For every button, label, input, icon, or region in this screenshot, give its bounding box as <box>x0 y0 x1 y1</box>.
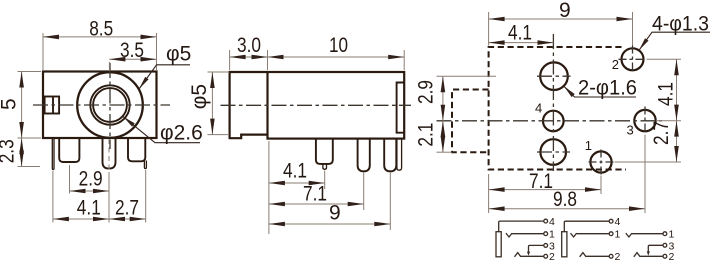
svg-text:2: 2 <box>612 57 619 72</box>
svg-text:10: 10 <box>329 34 348 57</box>
svg-text:2: 2 <box>669 251 675 260</box>
svg-text:4: 4 <box>615 216 621 228</box>
svg-text:7.1: 7.1 <box>303 182 327 205</box>
svg-text:7.1: 7.1 <box>529 170 553 193</box>
svg-text:3.5: 3.5 <box>120 39 144 62</box>
svg-text:9: 9 <box>559 0 571 22</box>
svg-text:3.0: 3.0 <box>237 34 261 57</box>
svg-text:2: 2 <box>549 251 555 260</box>
svg-text:4: 4 <box>549 216 555 228</box>
svg-text:4.1: 4.1 <box>655 82 678 106</box>
svg-text:1: 1 <box>585 138 592 153</box>
svg-text:4.1: 4.1 <box>283 159 307 182</box>
svg-text:4-φ1.3: 4-φ1.3 <box>652 12 709 35</box>
svg-text:2.7: 2.7 <box>650 121 673 145</box>
svg-text:φ5: φ5 <box>166 42 191 65</box>
svg-text:3: 3 <box>627 123 634 138</box>
svg-text:2.9: 2.9 <box>415 80 438 104</box>
svg-text:1: 1 <box>549 229 555 241</box>
svg-text:4.1: 4.1 <box>77 196 101 219</box>
svg-text:1: 1 <box>669 229 675 241</box>
svg-text:9: 9 <box>329 201 341 224</box>
svg-text:2.7: 2.7 <box>115 196 139 219</box>
svg-text:4.1: 4.1 <box>508 22 532 45</box>
svg-text:2-φ1.6: 2-φ1.6 <box>578 77 637 100</box>
svg-text:2.1: 2.1 <box>415 123 438 147</box>
svg-text:2.3: 2.3 <box>0 139 18 163</box>
svg-text:4: 4 <box>535 101 542 116</box>
svg-text:5: 5 <box>0 98 21 110</box>
svg-text:2.9: 2.9 <box>79 167 103 190</box>
svg-text:1: 1 <box>615 229 621 241</box>
svg-text:8.5: 8.5 <box>89 17 113 40</box>
svg-text:φ2.6: φ2.6 <box>160 122 203 145</box>
svg-text:9.8: 9.8 <box>553 188 577 211</box>
svg-text:φ5: φ5 <box>188 84 211 109</box>
svg-text:2: 2 <box>615 251 621 260</box>
